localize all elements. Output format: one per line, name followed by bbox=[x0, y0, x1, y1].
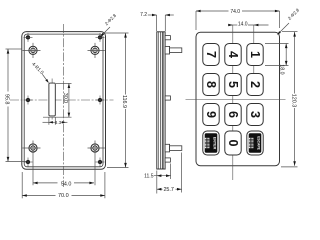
right view: key 2 bbox=[247, 74, 263, 96]
right view: key 9 bbox=[203, 104, 219, 126]
right view: key 4 bbox=[225, 44, 241, 66]
right view: horizontal centerline bbox=[186, 99, 286, 101]
svg-text:54.0: 54.0 bbox=[61, 181, 72, 187]
left view: small hole mid-left bbox=[24, 96, 33, 105]
svg-text:4: 4 bbox=[226, 51, 240, 58]
left view: screw boss top-right bbox=[88, 43, 105, 58]
side view: small stud middle bbox=[165, 96, 170, 100]
left view: small hole top-right bbox=[96, 33, 105, 42]
right view: key 7 bbox=[203, 44, 219, 66]
svg-text:2-Φ2.8: 2-Φ2.8 bbox=[287, 7, 301, 21]
svg-text:6: 6 bbox=[226, 111, 240, 118]
left view: dimension 116.9 bbox=[104, 33, 129, 168]
right view: dimension 74.0 bbox=[196, 9, 280, 30]
left view: small hole mid-right bbox=[96, 96, 105, 105]
right view: key 1 bbox=[247, 44, 263, 66]
left view: dimension 30.0 (slot height) bbox=[43, 83, 72, 117]
svg-text:14.0: 14.0 bbox=[238, 22, 248, 28]
svg-text:8.3: 8.3 bbox=[55, 120, 62, 125]
svg-text:1: 1 bbox=[248, 51, 262, 58]
svg-text:25.7: 25.7 bbox=[163, 187, 174, 193]
right view: key 0 bbox=[225, 131, 241, 155]
right view: key 8 bbox=[203, 74, 219, 96]
svg-text:74.0: 74.0 bbox=[230, 9, 240, 15]
svg-text:11.5: 11.5 bbox=[144, 174, 154, 180]
side view: dimension 25.7 bbox=[157, 153, 182, 194]
left view: label 4-R1.0 (slot corner radius) bbox=[30, 61, 49, 83]
svg-text:9: 9 bbox=[204, 111, 218, 118]
svg-text:30.0: 30.0 bbox=[62, 93, 68, 103]
left view: screw boss bottom-left bbox=[23, 141, 41, 186]
left view: rear plate outer outline bbox=[22, 32, 106, 170]
svg-text:95.8: 95.8 bbox=[4, 94, 10, 105]
svg-text:ESCAPE: ESCAPE bbox=[256, 136, 260, 150]
right view: key ENTER bbox=[203, 131, 219, 155]
right view: column-2 centerline bbox=[232, 25, 234, 180]
right view: key 6 bbox=[225, 104, 241, 126]
right view: column-3 extension line bbox=[253, 25, 255, 95]
svg-text:7.2: 7.2 bbox=[140, 12, 147, 18]
svg-text:3: 3 bbox=[248, 111, 262, 118]
left view: horizontal centerline bbox=[10, 99, 114, 101]
left view: dimension 8.3 (slot width) bbox=[43, 118, 68, 126]
right view: key 3 bbox=[247, 104, 263, 126]
side view: body stack bbox=[157, 32, 165, 169]
left view: screw boss top-left bbox=[23, 43, 41, 58]
svg-text:ENTER: ENTER bbox=[212, 137, 216, 150]
left view: small hole bottom-right bbox=[96, 158, 105, 167]
side view: dimension 7.2 bbox=[140, 12, 174, 31]
left view: small hole bottom-left bbox=[24, 158, 33, 167]
svg-text:120.3: 120.3 bbox=[290, 94, 296, 108]
svg-text:5: 5 bbox=[226, 81, 240, 88]
right view: dimension 18.0 bbox=[265, 44, 289, 75]
left view: dimension 54.0 bbox=[33, 181, 94, 187]
svg-text:2-Φ2.8: 2-Φ2.8 bbox=[104, 13, 118, 27]
left view: vertical centerline bbox=[62, 24, 64, 187]
svg-text:70.0: 70.0 bbox=[58, 193, 69, 199]
svg-text:7: 7 bbox=[204, 51, 218, 58]
left view: label hole callout bbox=[101, 13, 118, 37]
right view: key ESCAPE bbox=[247, 131, 263, 155]
left view: dimension 70.0 bbox=[22, 172, 105, 199]
svg-text:4-R1.0: 4-R1.0 bbox=[30, 61, 45, 76]
svg-text:18.0: 18.0 bbox=[278, 64, 284, 74]
side view: mounting screw bottom bbox=[165, 144, 182, 152]
svg-text:0: 0 bbox=[226, 139, 240, 146]
side view: small stud top bbox=[165, 36, 170, 40]
right view: bezel outline bbox=[196, 32, 280, 166]
svg-text:2: 2 bbox=[248, 81, 262, 88]
right view: key 5 bbox=[225, 74, 241, 96]
side view: dimension 11.5 bbox=[144, 164, 170, 194]
right view: dimension 120.3 bbox=[281, 32, 298, 167]
right view: label corner callout bbox=[277, 7, 300, 35]
right view: dimension 14.0 bbox=[228, 22, 268, 28]
left view: rear plate inner outline bbox=[24, 34, 103, 167]
left view: small hole top-left bbox=[24, 33, 33, 42]
svg-text:8: 8 bbox=[204, 81, 218, 88]
left view: screw boss bottom-right bbox=[88, 141, 105, 186]
left view: slot centerline bbox=[51, 79, 53, 121]
svg-text:116.9: 116.9 bbox=[121, 95, 127, 108]
left view: centre slot bbox=[49, 83, 55, 116]
left view: dimension 95.8 bbox=[4, 49, 26, 162]
side view: mounting screw top bbox=[165, 46, 182, 54]
side view: small stud bottom bbox=[165, 158, 170, 162]
